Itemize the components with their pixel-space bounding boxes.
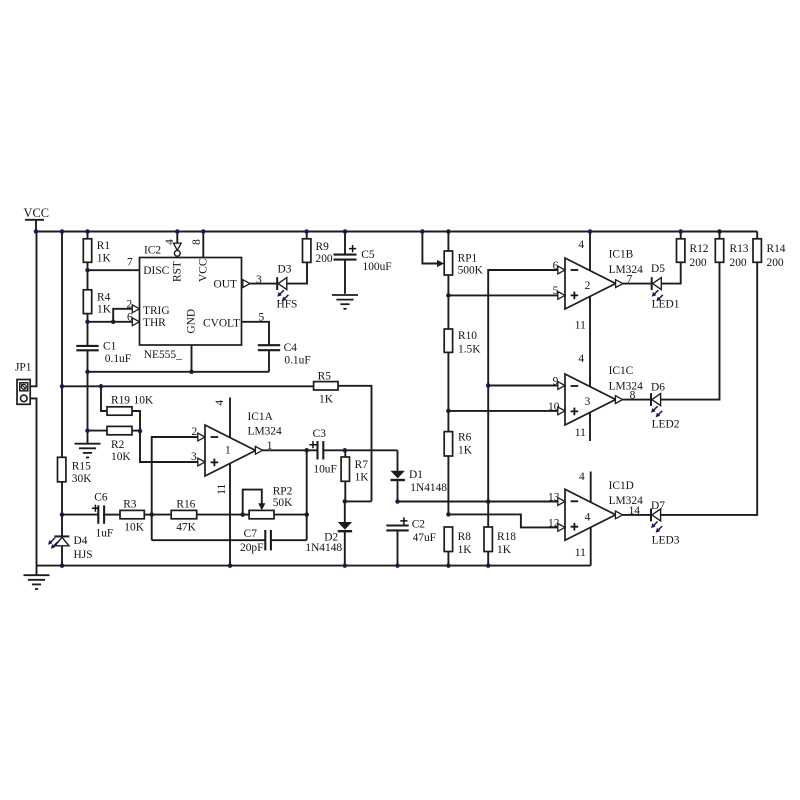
ground GND2 (under R2) <box>75 431 101 458</box>
photodiode D4 HJS <box>48 535 93 561</box>
svg-text:LM324: LM324 <box>609 381 643 393</box>
svg-text:NE555_: NE555_ <box>144 349 182 361</box>
svg-text:C2: C2 <box>412 518 426 530</box>
svg-text:C1: C1 <box>103 340 117 352</box>
svg-text:C6: C6 <box>94 492 108 504</box>
wire RP2 node to C3 node <box>306 450 308 514</box>
wire D3 to R9 <box>287 262 307 283</box>
wire C7 right to RP2 node <box>306 515 308 541</box>
svg-text:10K: 10K <box>134 394 154 406</box>
wire D6 to R13 <box>661 262 720 399</box>
svg-text:HFS: HFS <box>277 298 298 310</box>
capacitor C2 <box>386 517 436 565</box>
svg-text:10uF: 10uF <box>313 463 336 475</box>
resistor R13 <box>715 232 748 269</box>
wire bottom ground rail <box>37 565 591 567</box>
resistor R16 <box>152 499 243 534</box>
pin IC1B output <box>616 274 652 288</box>
node C1/GND-rail junction <box>85 370 90 375</box>
svg-text:10K: 10K <box>111 451 131 463</box>
node R10 bottom junction <box>446 409 451 414</box>
LED D3 HFS <box>277 263 298 310</box>
svg-text:4: 4 <box>214 400 226 406</box>
resistor R14 <box>753 232 786 269</box>
svg-text:R8: R8 <box>458 531 472 543</box>
svg-text:R10: R10 <box>458 330 477 342</box>
node RP2 right junction <box>304 512 309 517</box>
capacitor C7 <box>152 528 307 554</box>
wire IC1B pin6 <box>488 260 565 502</box>
svg-text:1K: 1K <box>497 544 512 556</box>
svg-text:R14: R14 <box>767 243 786 255</box>
svg-text:5: 5 <box>259 311 265 323</box>
svg-text:1K: 1K <box>97 304 112 316</box>
svg-text:R13: R13 <box>730 243 749 255</box>
op-amp IC1D LM324 <box>565 480 643 540</box>
svg-text:47K: 47K <box>176 522 196 534</box>
svg-text:1N4148: 1N4148 <box>410 482 447 494</box>
wire IC1C pin10 <box>448 401 565 413</box>
capacitor C3 <box>307 428 345 475</box>
wire C1 column to ground <box>87 372 89 431</box>
svg-text:IC1C: IC1C <box>609 365 634 377</box>
svg-text:R15: R15 <box>72 461 91 473</box>
wire D4 to ground rail <box>61 546 63 566</box>
wire 555 ground rail <box>88 370 270 375</box>
svg-text:GND: GND <box>185 309 197 334</box>
svg-text:4: 4 <box>164 239 176 245</box>
svg-text:R4: R4 <box>97 292 111 304</box>
svg-text:20pF: 20pF <box>240 542 263 554</box>
op-amp IC1A LM324 <box>205 411 282 476</box>
svg-text:R7: R7 <box>355 459 369 471</box>
svg-text:IC1A: IC1A <box>248 411 274 423</box>
svg-text:R3: R3 <box>123 499 137 511</box>
svg-text:200: 200 <box>730 257 747 269</box>
svg-text:1N4148: 1N4148 <box>305 542 342 554</box>
capacitor C4 <box>258 342 311 372</box>
svg-text:4: 4 <box>585 512 591 524</box>
svg-text:R19: R19 <box>111 394 130 406</box>
potentiometer RP1 <box>422 232 483 296</box>
svg-text:1uF: 1uF <box>96 528 114 540</box>
node THR junction <box>85 320 115 325</box>
node IC1A out junction <box>304 448 309 453</box>
svg-text:IC1D: IC1D <box>609 480 634 492</box>
resistor R15 <box>58 457 93 485</box>
svg-text:100uF: 100uF <box>363 261 392 273</box>
IC U-IC2 NE555 box <box>140 245 242 362</box>
svg-text:R5: R5 <box>318 370 332 382</box>
pin RST pin4 <box>164 232 181 257</box>
svg-text:DISC: DISC <box>143 265 169 277</box>
wire VCC column x62 <box>61 232 63 458</box>
capacitor C5 <box>334 232 392 294</box>
svg-text:11: 11 <box>575 320 586 332</box>
pin IC1A output <box>255 440 306 454</box>
svg-text:TRIG: TRIG <box>143 305 170 317</box>
wire D2 to ground rail <box>344 532 346 566</box>
svg-text:RP1: RP1 <box>458 252 478 264</box>
pin VCC pin8 <box>191 232 203 258</box>
resistor R19 <box>101 386 154 431</box>
svg-text:14: 14 <box>629 505 641 517</box>
svg-text:LED3: LED3 <box>652 534 680 546</box>
svg-text:LM324: LM324 <box>248 426 282 438</box>
resistor R1 <box>83 232 111 271</box>
potentiometer RP2 <box>243 486 307 519</box>
ground GND1 (bottom left) <box>24 575 50 589</box>
svg-text:1K: 1K <box>458 544 473 556</box>
wire IC1D pin12 <box>448 514 565 529</box>
svg-text:IC1B: IC1B <box>609 249 634 261</box>
wire R15 to D4 <box>60 482 65 536</box>
svg-text:0.1uF: 0.1uF <box>105 353 131 365</box>
node RP2 left junction <box>240 512 245 517</box>
pin IC1D input arrows <box>558 498 565 532</box>
node R1/DISC junction <box>85 268 90 273</box>
wire CVOLT pin5 <box>242 311 270 345</box>
svg-text:RST: RST <box>172 261 184 282</box>
svg-text:OUT: OUT <box>214 278 237 290</box>
svg-text:2: 2 <box>585 280 591 292</box>
wire D1 to node <box>397 480 399 502</box>
resistor R8 <box>444 527 472 566</box>
svg-text:8: 8 <box>630 390 636 402</box>
svg-text:C4: C4 <box>284 342 298 354</box>
resistor R4 <box>83 270 111 322</box>
LED D6 LED2 <box>651 382 680 431</box>
svg-text:3: 3 <box>585 396 591 408</box>
pin IC1D output <box>615 505 651 519</box>
wire C3 to D1 <box>345 450 398 471</box>
node R3/R16 junction <box>149 512 154 517</box>
resistor R6 <box>444 411 472 515</box>
svg-text:R6: R6 <box>458 431 472 443</box>
resistor R10 <box>444 295 481 411</box>
wire TRIG/THR bracket <box>88 299 134 324</box>
node C3/R7 junction <box>343 448 348 453</box>
svg-text:1K: 1K <box>319 394 334 406</box>
node RP1 bottom junction <box>446 293 451 298</box>
capacitor C6 <box>62 492 120 540</box>
pin IC1A input arrows <box>198 433 205 466</box>
svg-text:11: 11 <box>575 547 586 559</box>
svg-text:30K: 30K <box>72 473 92 485</box>
svg-text:11: 11 <box>216 484 228 495</box>
pin TRIG arrow <box>132 305 139 313</box>
op-amp IC1C LM324 <box>565 365 643 425</box>
svg-text:3: 3 <box>191 451 197 463</box>
svg-text:11: 11 <box>575 427 586 439</box>
node R8 top junction <box>446 512 451 517</box>
svg-text:LED1: LED1 <box>652 299 680 311</box>
resistor R5 <box>314 370 338 405</box>
svg-text:CVOLT: CVOLT <box>203 317 240 329</box>
svg-text:HJS: HJS <box>74 549 93 561</box>
pin IC1C input arrows <box>558 382 565 415</box>
svg-text:D4: D4 <box>74 535 88 547</box>
wire R2 node to IC1A pin3 <box>140 431 205 463</box>
svg-text:1.5K: 1.5K <box>458 343 481 355</box>
pin IC1B input arrows <box>558 266 565 299</box>
connector JP1 <box>15 362 32 405</box>
wire top rail end to R14 <box>720 231 758 233</box>
pin IC1A power line <box>214 398 230 566</box>
wire R5 to R7 node <box>338 386 372 502</box>
svg-text:C3: C3 <box>313 428 327 440</box>
svg-text:RP2: RP2 <box>273 486 293 498</box>
node VCC-rail junctions <box>34 229 722 234</box>
svg-text:7: 7 <box>127 257 133 269</box>
svg-text:IC2: IC2 <box>144 245 161 257</box>
svg-text:R9: R9 <box>316 241 330 253</box>
wire R7 node corner <box>345 500 372 502</box>
svg-text:4: 4 <box>578 239 584 251</box>
wire D7 to R14 <box>661 262 758 515</box>
svg-text:0.1uF: 0.1uF <box>284 355 310 367</box>
svg-text:1: 1 <box>225 444 231 456</box>
svg-text:D7: D7 <box>651 500 665 512</box>
svg-text:8: 8 <box>191 239 203 245</box>
VCC power symbol <box>24 206 49 232</box>
svg-text:50K: 50K <box>273 497 293 509</box>
capacitor C1 <box>76 322 131 372</box>
wire IC1C pin9 <box>488 375 565 387</box>
svg-text:R12: R12 <box>690 243 709 255</box>
resistor R12 <box>677 232 709 269</box>
svg-text:R16: R16 <box>176 499 195 511</box>
svg-text:10K: 10K <box>124 522 144 534</box>
svg-text:JP1: JP1 <box>15 362 32 374</box>
op-amp IC1B LM324 <box>565 249 643 310</box>
wire DISC pin7 <box>88 257 140 271</box>
svg-text:LED2: LED2 <box>652 418 680 430</box>
svg-text:D3: D3 <box>278 263 292 275</box>
svg-text:D1: D1 <box>409 469 423 481</box>
svg-text:2: 2 <box>192 426 198 438</box>
node ground-rail junctions <box>60 563 491 568</box>
resistor R2 <box>85 426 142 463</box>
svg-text:1K: 1K <box>355 471 370 483</box>
svg-text:1K: 1K <box>458 444 473 456</box>
ground GND3 (under C5) <box>332 295 358 309</box>
svg-text:200: 200 <box>690 257 707 269</box>
wire VCC to JP1 pin1 <box>30 232 36 387</box>
wire VCC reference rail <box>60 384 314 389</box>
svg-text:R1: R1 <box>97 240 111 252</box>
node D1 cathode junction <box>395 499 400 504</box>
svg-text:200: 200 <box>767 257 784 269</box>
svg-text:2: 2 <box>127 299 133 311</box>
pin IC1B/IC1C power line <box>575 232 590 442</box>
svg-text:R2: R2 <box>111 439 125 451</box>
LED D5 LED1 <box>651 263 680 311</box>
svg-text:1K: 1K <box>97 253 112 265</box>
node R7 bottom junction <box>343 499 348 504</box>
wire IC1B pin5 <box>448 285 565 297</box>
pin THR arrow <box>132 318 139 326</box>
svg-text:4: 4 <box>578 353 584 365</box>
svg-text:VCC: VCC <box>24 206 49 220</box>
svg-text:1: 1 <box>267 440 273 452</box>
wire JP1 pin2 to ground <box>30 398 36 575</box>
pin IC1C output <box>615 390 651 404</box>
resistor R18 <box>484 502 516 566</box>
svg-text:C7: C7 <box>244 528 258 540</box>
svg-text:3: 3 <box>256 274 262 286</box>
node bus pin9 junction <box>486 383 491 388</box>
pin OUT pin3 <box>243 274 277 288</box>
wire D5 to R12 <box>661 262 680 283</box>
svg-text:D6: D6 <box>651 382 665 394</box>
svg-text:47uF: 47uF <box>413 532 436 544</box>
diode D2 1N4148 <box>305 501 352 554</box>
wire top VCC rail <box>36 231 757 233</box>
diode D1 1N4148 <box>391 469 448 494</box>
svg-text:4: 4 <box>579 471 585 483</box>
svg-text:VCC: VCC <box>198 259 210 282</box>
resistor R7 <box>341 450 369 501</box>
svg-text:200: 200 <box>316 253 333 265</box>
svg-text:7: 7 <box>627 274 633 286</box>
node D1/bus junction <box>486 499 491 504</box>
wire IC1D pin13 <box>398 491 566 503</box>
wire IC1A pin2 feedback <box>152 426 205 540</box>
svg-text:THR: THR <box>143 317 166 329</box>
LED D7 LED3 <box>651 500 680 546</box>
svg-text:D5: D5 <box>651 263 665 275</box>
resistor R9 <box>303 232 333 266</box>
pin IC1D power line <box>575 471 591 566</box>
svg-text:C5: C5 <box>361 249 375 261</box>
svg-text:R18: R18 <box>497 531 516 543</box>
pin GND stem <box>191 345 193 372</box>
resistor R3 <box>120 499 152 534</box>
svg-text:500K: 500K <box>458 264 484 276</box>
